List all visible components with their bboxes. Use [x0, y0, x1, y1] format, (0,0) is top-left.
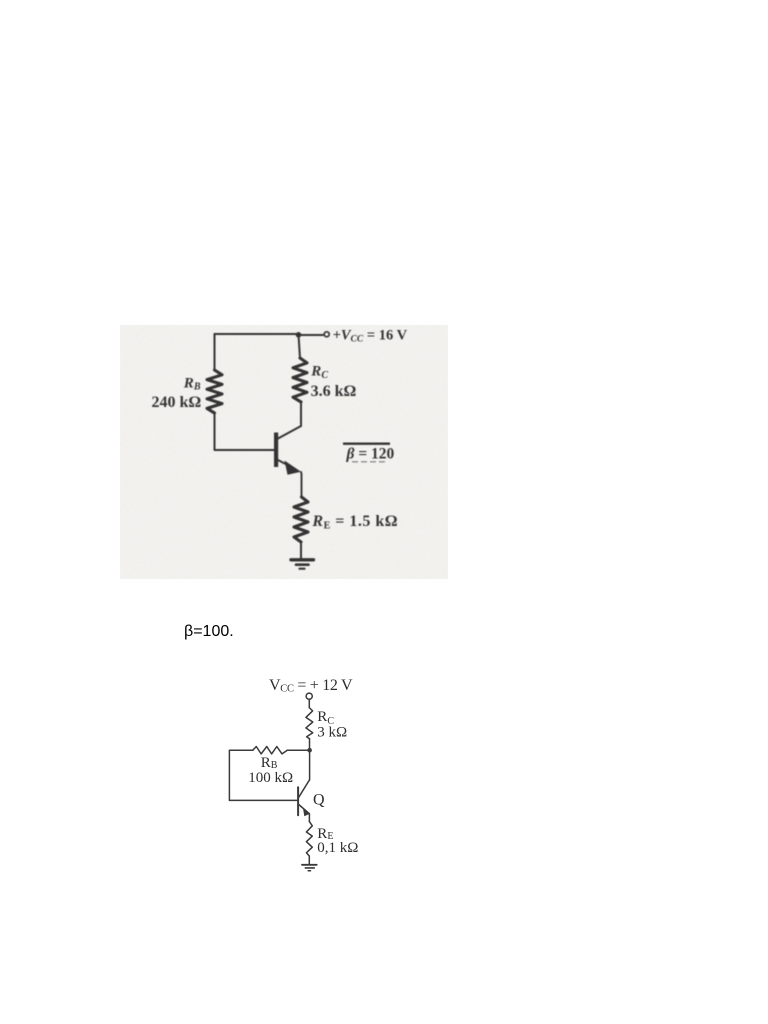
emitter lead [299, 805, 310, 814]
svg-text:0,1 kΩ: 0,1 kΩ [317, 840, 358, 856]
wire top rail [215, 333, 297, 335]
svg-text:RB: RB [261, 755, 278, 771]
wire left vertical [214, 334, 216, 370]
wire emitter down [300, 472, 303, 497]
wire RC to node [309, 739, 311, 750]
transistor collector lead [278, 426, 301, 439]
collector lead [299, 780, 310, 797]
wire to terminal [301, 334, 323, 336]
ground [302, 864, 317, 866]
node top [296, 332, 302, 338]
node base-collector [307, 748, 312, 753]
overline of beta label [343, 443, 390, 445]
svg-text:+VCC = 16 V: +VCC = 16 V [333, 328, 408, 345]
wire node left [287, 749, 309, 751]
resistor RE 0.1k [306, 821, 312, 856]
wire collector vertical [300, 402, 302, 426]
wire RB bottom to base [215, 413, 275, 450]
svg-text:β = 120: β = 120 [346, 446, 395, 463]
transistor Q base bar [297, 787, 299, 815]
wire node to RC top [299, 335, 301, 358]
resistor RB 100k (horizontal) [253, 747, 287, 754]
transistor Q1 base bar [274, 433, 278, 468]
emitter arrow [285, 461, 302, 475]
terminal Vcc [306, 693, 312, 699]
circuit 2 [220, 670, 400, 880]
emitter arrow [303, 808, 310, 816]
ground [291, 558, 314, 561]
svg-text:Q: Q [313, 792, 325, 809]
scanned figure background [120, 325, 448, 579]
svg-text:100 kΩ: 100 kΩ [248, 770, 293, 786]
transistor emitter lead [278, 460, 296, 470]
resistor RE 1.5k [294, 497, 308, 542]
smudge under beta label [352, 461, 388, 463]
resistor RC 3.6k [293, 358, 307, 402]
wire RE to ground [308, 856, 310, 865]
svg-text:VCC = + 12 V: VCC = + 12 V [269, 677, 353, 695]
svg-text:3.6 kΩ: 3.6 kΩ [311, 383, 357, 400]
terminal +Vcc [324, 332, 329, 337]
svg-text:3 kΩ: 3 kΩ [317, 725, 347, 741]
wire RE to ground [300, 542, 302, 559]
text beta=100 [184, 624, 234, 640]
resistor RC 3k [306, 708, 313, 739]
svg-text:240 kΩ: 240 kΩ [152, 394, 202, 411]
wire terminal to RC [308, 699, 310, 707]
resistor RB 240k [207, 370, 222, 413]
wire RB to left corner, down, to base [229, 750, 297, 800]
wire emitter to RE [308, 814, 310, 822]
wire collector vertical [309, 750, 311, 780]
